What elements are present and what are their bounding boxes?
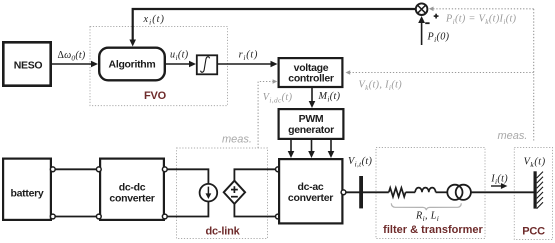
svg-text:filter & transformer: filter & transformer	[383, 224, 483, 236]
svg-text:Ri, Li: Ri, Li	[415, 210, 439, 223]
svg-text:Algorithm: Algorithm	[109, 59, 156, 71]
node dc-dc left bottom	[96, 214, 101, 219]
svg-text:ui(t): ui(t)	[170, 49, 189, 62]
svg-text:xi(t): xi(t)	[143, 14, 165, 27]
bus bar Vi,t	[359, 176, 363, 208]
dashed region PCC box	[514, 148, 552, 240]
svg-text:Pi(0): Pi(0)	[427, 31, 450, 44]
inductor Li	[415, 188, 435, 193]
arrow Ii direction	[491, 183, 507, 189]
node dc-dc right top	[162, 167, 167, 172]
node dc-dc right bottom	[162, 214, 167, 219]
dashed region FVO box	[90, 27, 228, 106]
label Vk(t)	[524, 156, 546, 169]
feedback wire xi(t) from junction to Algorithm	[129, 9, 416, 47]
label PCC	[522, 226, 545, 238]
label Pi(t)=Vk(t)Ii(t)	[445, 14, 517, 27]
block dc-ac converter	[279, 159, 342, 223]
svg-text:converter: converter	[288, 192, 333, 204]
label plus	[434, 14, 439, 19]
node dc-dc left top	[96, 167, 101, 172]
node dc-ac right	[341, 190, 346, 195]
node dc-ac left top	[276, 167, 281, 172]
wire dc-dc to current source bottom	[165, 201, 208, 216]
dependent source diamond	[224, 181, 245, 204]
label Vk(t),Ii(t)	[359, 80, 403, 93]
svg-text:ri(t): ri(t)	[239, 49, 259, 62]
wires PWM to dc-ac (3 arrows)	[288, 140, 335, 158]
wire dc-ac to filter	[346, 191, 389, 193]
wire battery to dc-dc top	[52, 168, 99, 170]
svg-text:dc-link: dc-link	[205, 226, 240, 238]
resistor Ri	[389, 188, 406, 197]
svg-text:Mi(t): Mi(t)	[318, 91, 341, 104]
label Pi(0)	[427, 31, 450, 44]
label Ri, Li	[415, 210, 439, 223]
block NESO	[3, 42, 50, 85]
wire integrator to voltage controller ri(t)	[218, 61, 278, 68]
label meas. (PCC)	[498, 130, 528, 142]
label dc-link	[205, 226, 240, 238]
svg-text:Vk(t): Vk(t)	[524, 156, 546, 169]
label Vi,dc(t)	[263, 92, 293, 105]
svg-text:controller: controller	[288, 72, 334, 84]
measurement line Vk,Ii from PCC up	[533, 9, 535, 141]
svg-text:PCC: PCC	[522, 226, 545, 238]
label Mi(t)	[318, 91, 341, 104]
transformer	[447, 185, 471, 200]
brace under Ri Li	[391, 203, 461, 210]
block voltage controller	[279, 58, 343, 87]
wire inductor to transformer	[436, 191, 448, 193]
dashed region filter & transformer box	[376, 148, 485, 239]
summing junction	[416, 3, 428, 15]
svg-text:Pi(t) = Vk(t)Ii(t): Pi(t) = Vk(t)Ii(t)	[445, 14, 517, 27]
label Ii(t)	[490, 174, 508, 187]
label minus	[425, 22, 429, 24]
label ri(t)	[239, 49, 259, 62]
wire Pi(0) into junction	[418, 16, 425, 45]
label FVO	[144, 90, 167, 102]
node battery top	[50, 167, 55, 172]
block PWM generator	[279, 109, 344, 139]
svg-text:battery: battery	[11, 188, 44, 200]
label dw0(t)	[58, 50, 86, 63]
svg-text:converter: converter	[109, 193, 154, 205]
wire diamond to dc-ac bottom	[234, 204, 278, 217]
measurement line Vi,dc dc-link to voltage controller	[258, 79, 277, 148]
wire diamond to dc-ac top	[234, 169, 278, 180]
svg-text:Vk(t), Ii(t): Vk(t), Ii(t)	[359, 80, 403, 93]
label Vi,t(t)	[348, 156, 373, 169]
label meas. (dc-link)	[222, 134, 252, 146]
measurement branch to summing junction	[429, 7, 534, 12]
wire Mi(t) voltage controller to PWM	[309, 87, 316, 108]
svg-text:FVO: FVO	[144, 90, 167, 102]
wire resistor to inductor	[406, 191, 416, 193]
current source I	[200, 184, 218, 202]
node battery bottom	[50, 214, 55, 219]
block integrator	[197, 55, 217, 74]
dashed region dc-link box	[177, 148, 268, 239]
wire battery to dc-dc bottom	[52, 216, 99, 218]
svg-text:PWM: PWM	[299, 113, 324, 125]
label filter & transformer	[383, 224, 483, 236]
wire transformer to PCC	[471, 191, 534, 193]
label xi(t)	[143, 14, 165, 27]
measurement branch to voltage controller	[346, 70, 534, 75]
svg-text:Ii(t): Ii(t)	[490, 174, 508, 187]
wire NESO to Algorithm	[52, 61, 98, 68]
svg-text:generator: generator	[288, 124, 334, 136]
wire Algorithm to integrator	[166, 61, 196, 68]
svg-text:NESO: NESO	[14, 60, 43, 72]
node dc-ac left bottom	[276, 214, 281, 219]
block battery	[3, 159, 51, 220]
wire dc-dc to current source top	[165, 169, 208, 184]
block Algorithm U-alg	[99, 48, 165, 81]
PCC bus bar with hatching	[534, 171, 544, 208]
svg-text:meas.: meas.	[222, 134, 252, 146]
label ui(t)	[170, 49, 189, 62]
block dc-dc converter	[100, 159, 164, 220]
svg-text:meas.: meas.	[498, 130, 528, 142]
